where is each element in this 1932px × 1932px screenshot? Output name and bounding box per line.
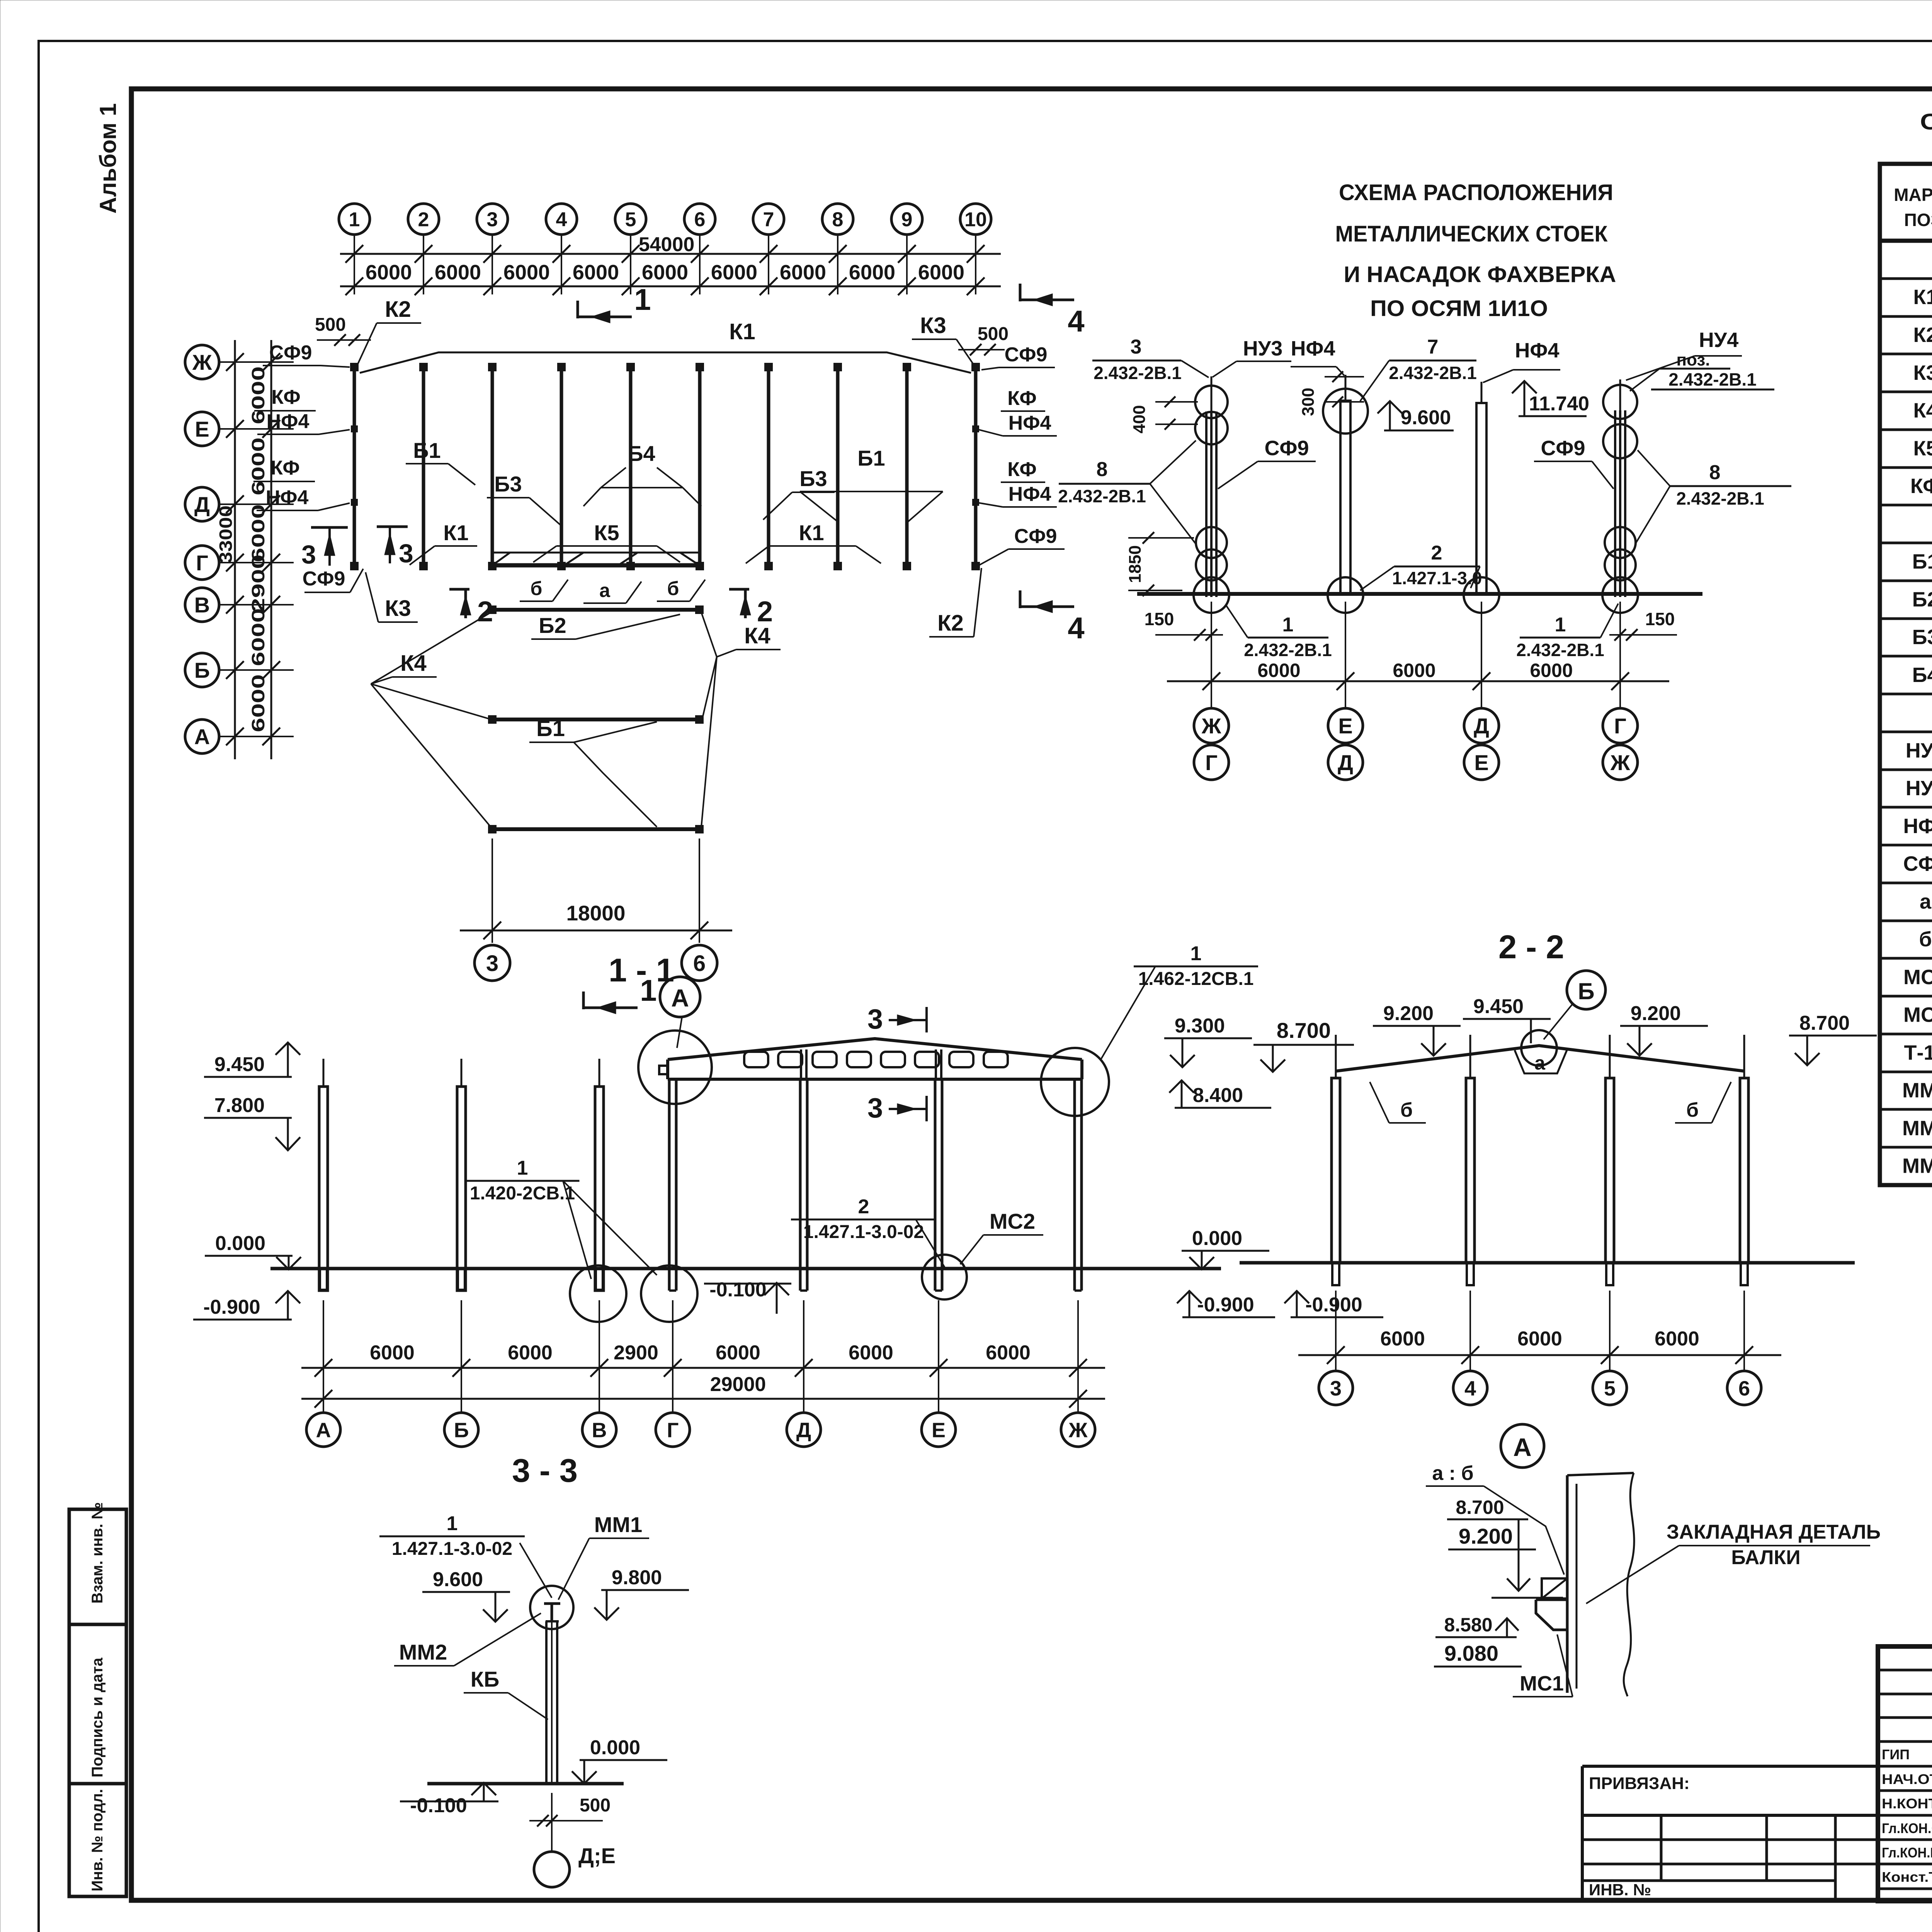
svg-text:2900: 2900 — [248, 554, 268, 612]
svg-text:6000: 6000 — [1380, 1328, 1425, 1350]
svg-text:К2: К2 — [1913, 323, 1932, 347]
section flags 4 top-right and bottom-right — [1020, 299, 1074, 301]
spec row 10: Б2 — [1880, 580, 1932, 582]
svg-text:В: В — [592, 1418, 607, 1442]
svg-text:1.462-12СВ.1: 1.462-12СВ.1 — [1138, 969, 1254, 989]
svg-text:НФ4: НФ4 — [1009, 483, 1051, 505]
svg-text:СФ9: СФ9 — [1903, 852, 1932, 876]
spec row 15: НУ4 — [1880, 769, 1932, 771]
svg-text:К1: К1 — [443, 520, 468, 545]
1-1 MS2 balloon and label — [922, 1255, 967, 1299]
svg-text:8: 8 — [832, 209, 844, 231]
svg-text:поз.: поз. — [1677, 350, 1710, 369]
plan top dimension line 54000 — [340, 253, 1001, 255]
svg-text:6000: 6000 — [248, 366, 268, 424]
2-2 dim line 6000s — [1298, 1354, 1781, 1356]
svg-text:А: А — [1513, 1433, 1532, 1461]
svg-text:9.450: 9.450 — [1473, 995, 1524, 1018]
svg-text:КФ: КФ — [1910, 474, 1932, 498]
svg-text:ПОЗ.: ПОЗ. — [1904, 210, 1932, 230]
plan axis circles 1..10 — [339, 204, 370, 235]
svg-text:Б3: Б3 — [799, 466, 827, 491]
plan axis 5 guide line — [630, 234, 631, 294]
plan axis А guide — [219, 736, 294, 737]
svg-text:КФ: КФ — [1007, 458, 1036, 481]
svg-text:1: 1 — [517, 1157, 528, 1179]
1-1 free columns A B V — [319, 1087, 328, 1291]
svg-text:2.432-2В.1: 2.432-2В.1 — [1244, 640, 1332, 660]
svg-text:МС1: МС1 — [1903, 966, 1932, 989]
svg-text:Взам. инв. №: Взам. инв. № — [89, 1502, 106, 1604]
plan fachwerk squares on axes 1 and 10 — [352, 426, 357, 432]
svg-text:6000: 6000 — [716, 1342, 760, 1364]
svg-text:К1: К1 — [799, 520, 824, 545]
svg-text:400: 400 — [1130, 405, 1149, 433]
2-2 columns 3..6 — [1332, 1078, 1340, 1263]
svg-text:6000: 6000 — [435, 261, 481, 284]
svg-text:КФ: КФ — [1007, 387, 1036, 410]
svg-text:6000: 6000 — [986, 1342, 1031, 1364]
plan axis 1 guide line — [354, 234, 355, 294]
svg-text:4: 4 — [556, 209, 567, 231]
svg-text:9.200: 9.200 — [1631, 1002, 1681, 1025]
plan axis 2 guide line — [423, 234, 424, 294]
svg-text:8.580: 8.580 — [1444, 1614, 1492, 1636]
svg-text:500: 500 — [315, 315, 346, 335]
svg-text:Альбом 1: Альбом 1 — [95, 103, 121, 214]
svg-text:Гл.КОН.ПР.: Гл.КОН.ПР. — [1882, 1845, 1932, 1861]
svg-text:6000: 6000 — [711, 261, 757, 284]
left margin stamp box Vzam inv no — [69, 1509, 126, 1624]
svg-text:6000: 6000 — [366, 261, 412, 284]
svg-text:2900: 2900 — [614, 1342, 658, 1364]
svg-text:4: 4 — [1068, 304, 1084, 338]
svg-text:10: 10 — [964, 209, 987, 231]
detail A wavy break line — [1624, 1473, 1634, 1696]
section flag 1 top on plan — [578, 316, 632, 318]
svg-text:1.427.1-3.0-02: 1.427.1-3.0-02 — [392, 1539, 512, 1559]
svg-text:б: б — [1919, 928, 1932, 951]
svg-text:7: 7 — [1427, 336, 1439, 358]
svg-text:МС1: МС1 — [1520, 1672, 1564, 1695]
beam B2 line axes 3-6 — [492, 608, 699, 612]
fachwerk axis circle pairs — [1211, 694, 1212, 708]
svg-text:6: 6 — [1738, 1377, 1750, 1400]
1-1 section flags 3 upper — [889, 1019, 925, 1021]
3-3 top widget — [544, 1602, 560, 1605]
svg-text:4: 4 — [1068, 611, 1084, 645]
K1 top leader polyline — [360, 352, 971, 373]
spec row 4: К3 — [1880, 353, 1932, 355]
plan left vertical dim line bays — [270, 340, 272, 759]
svg-text:Б4: Б4 — [628, 441, 655, 466]
svg-text:6: 6 — [694, 209, 706, 231]
detail A bracket MS1 — [1536, 1599, 1567, 1601]
spec row 14: НУ3 — [1880, 731, 1932, 733]
svg-text:БАЛКИ: БАЛКИ — [1731, 1546, 1800, 1569]
svg-text:Инв. № подл.: Инв. № подл. — [89, 1789, 106, 1891]
1-1 beam end plate left — [659, 1066, 668, 1074]
spec row 2: К1 — [1880, 277, 1932, 280]
svg-text:1: 1 — [349, 209, 360, 231]
svg-text:Б3: Б3 — [1912, 626, 1932, 649]
spec row 19: б — [1880, 920, 1932, 922]
svg-text:Д: Д — [1474, 714, 1489, 738]
spec row 20: МС1 — [1880, 957, 1932, 960]
1-1 building columns G D E Zh — [668, 1079, 671, 1291]
svg-text:К3: К3 — [1913, 361, 1932, 384]
beam row mid squares — [492, 718, 699, 721]
svg-text:2.432-2В.1: 2.432-2В.1 — [1516, 640, 1604, 660]
spec row 7: КФ — [1880, 466, 1932, 469]
svg-text:1: 1 — [1190, 942, 1202, 965]
2-2 a label at apex — [1515, 1050, 1567, 1073]
spec row 8: Балки — [1880, 504, 1932, 507]
spec table outer box — [1880, 164, 1932, 1185]
svg-text:Г: Г — [196, 551, 208, 575]
svg-text:СПЕЦИФИКАЦИЯ ЭЛЕМЕНТОВ К СХ: СПЕЦИФИКАЦИЯ ЭЛЕМЕНТОВ К СХЕМЕ РАСПОЛОЖЕ… — [1920, 109, 1932, 134]
svg-text:К2: К2 — [385, 297, 411, 322]
svg-text:а: а — [599, 580, 611, 601]
svg-text:Ж: Ж — [1068, 1418, 1088, 1442]
spec row 22: Т-13 — [1880, 1033, 1932, 1036]
svg-text:СФ9: СФ9 — [1014, 525, 1057, 548]
plan axis 9 guide line — [906, 234, 908, 294]
svg-text:6000: 6000 — [248, 437, 268, 495]
plan axis 3 guide line — [492, 234, 493, 294]
1-1 beam holes — [744, 1052, 768, 1067]
svg-text:Б2: Б2 — [539, 613, 566, 638]
svg-text:МС2: МС2 — [1903, 1003, 1932, 1027]
svg-text:Б1: Б1 — [857, 446, 885, 470]
1-1 ground line — [270, 1267, 1221, 1270]
svg-text:В: В — [194, 593, 210, 617]
svg-text:б: б — [667, 578, 679, 599]
svg-text:150: 150 — [1645, 609, 1675, 629]
svg-text:НФ4: НФ4 — [267, 410, 310, 433]
svg-text:К5: К5 — [594, 520, 619, 545]
svg-text:500: 500 — [580, 1795, 611, 1816]
svg-text:СХЕМА РАСПОЛОЖЕНИЯ: СХЕМА РАСПОЛОЖЕНИЯ — [1339, 180, 1613, 205]
svg-text:Е: Е — [195, 417, 209, 441]
svg-text:КФ: КФ — [271, 386, 300, 408]
svg-text:Б: Б — [454, 1418, 469, 1442]
svg-text:6000: 6000 — [642, 261, 688, 284]
spec row 3: К2 — [1880, 315, 1932, 318]
fachwerk ground line — [1137, 592, 1702, 596]
svg-text:9.200: 9.200 — [1383, 1002, 1434, 1025]
spec row 17: СФ9 — [1880, 844, 1932, 847]
svg-text:8: 8 — [1097, 458, 1108, 481]
svg-text:1: 1 — [1555, 614, 1566, 636]
svg-text:ММ2: ММ2 — [399, 1640, 447, 1664]
plan column squares row G — [351, 563, 358, 570]
svg-text:б: б — [1686, 1099, 1699, 1121]
svg-text:6000: 6000 — [849, 261, 895, 284]
svg-text:3: 3 — [867, 1004, 883, 1035]
fachwerk post 4 (SF9) — [1614, 410, 1616, 597]
svg-text:ММ2: ММ2 — [1902, 1117, 1932, 1140]
svg-text:6000: 6000 — [849, 1342, 893, 1364]
svg-text:11.740: 11.740 — [1529, 393, 1589, 415]
svg-text:К1: К1 — [1913, 286, 1932, 309]
svg-text:МЕТАЛЛИЧЕСКИХ СТОЕК: МЕТАЛЛИЧЕСКИХ СТОЕК — [1335, 221, 1608, 247]
plan axis 6 guide line — [699, 234, 701, 294]
svg-text:Д;Е: Д;Е — [578, 1844, 616, 1868]
svg-text:СФ9: СФ9 — [1264, 437, 1309, 460]
1-1 base balloons — [570, 1265, 626, 1322]
spec table header bottom line — [1880, 239, 1932, 243]
svg-text:2 - 2: 2 - 2 — [1498, 929, 1564, 966]
svg-text:а: а — [1534, 1052, 1546, 1074]
spec row 12: Б4 — [1880, 655, 1932, 658]
svg-text:И НАСАДОК ФАХВЕРКА: И НАСАДОК ФАХВЕРКА — [1344, 262, 1616, 287]
svg-text:1.420-2СВ.1: 1.420-2СВ.1 — [470, 1183, 575, 1204]
svg-text:6000: 6000 — [503, 261, 550, 284]
svg-text:б: б — [1400, 1099, 1413, 1121]
svg-text:2.432-2В.1: 2.432-2В.1 — [1389, 363, 1477, 383]
svg-text:Т-13: Т-13 — [1904, 1041, 1932, 1064]
fachwerk post 1 (SF9) — [1205, 412, 1207, 597]
svg-text:5: 5 — [1604, 1377, 1616, 1400]
svg-text:К4: К4 — [744, 623, 770, 648]
svg-text:3 - 3: 3 - 3 — [512, 1452, 578, 1489]
svg-text:6: 6 — [693, 951, 706, 976]
svg-text:0.000: 0.000 — [215, 1232, 265, 1255]
svg-text:НУ4: НУ4 — [1699, 328, 1739, 352]
svg-text:ГИП: ГИП — [1882, 1747, 1910, 1762]
svg-text:Гл.КОН.ОТ: Гл.КОН.ОТ — [1882, 1820, 1932, 1836]
svg-text:9.600: 9.600 — [1401, 406, 1451, 429]
svg-text:6000: 6000 — [248, 504, 268, 562]
svg-text:ЗАКЛАДНАЯ ДЕТАЛЬ: ЗАКЛАДНАЯ ДЕТАЛЬ — [1667, 1521, 1881, 1543]
detail A column body — [1566, 1475, 1569, 1693]
svg-text:Подпись и дата: Подпись и дата — [89, 1657, 106, 1777]
spec row 11: Б3 — [1880, 617, 1932, 620]
plan column squares row Zh — [351, 364, 358, 371]
3-3 axis circle D;E — [534, 1852, 570, 1887]
plan top dimension line with 6000 bays — [340, 286, 1001, 287]
spec row 6: К5 — [1880, 429, 1932, 431]
svg-text:3: 3 — [486, 951, 498, 976]
svg-text:2.432-2В.1: 2.432-2В.1 — [1668, 369, 1757, 389]
plan axis circles left — [185, 345, 219, 379]
svg-text:3: 3 — [301, 540, 316, 569]
fachwerk balloon circles post4 — [1603, 385, 1637, 419]
svg-text:МС2: МС2 — [990, 1209, 1035, 1233]
svg-text:4: 4 — [1464, 1377, 1476, 1400]
svg-text:А: А — [671, 984, 689, 1012]
svg-text:2: 2 — [1431, 542, 1442, 564]
svg-text:НУ3: НУ3 — [1906, 739, 1932, 762]
svg-text:Б1: Б1 — [536, 716, 565, 741]
svg-text:6000: 6000 — [508, 1342, 553, 1364]
svg-text:6000: 6000 — [248, 608, 268, 666]
svg-text:Д: Д — [194, 492, 210, 517]
1-1 section flags 3 lower — [889, 1108, 925, 1110]
svg-text:К5: К5 — [1913, 437, 1932, 460]
svg-text:33000: 33000 — [216, 505, 236, 563]
svg-text:КФ: КФ — [270, 457, 299, 479]
plan building column lines axes 1-10 — [353, 367, 356, 566]
plan axis Ж guide — [219, 361, 294, 363]
svg-text:Е: Е — [932, 1418, 946, 1442]
plan axis 8 guide line — [837, 234, 838, 294]
svg-text:3: 3 — [1330, 1377, 1342, 1400]
svg-text:ПО ОСЯМ 1И1О: ПО ОСЯМ 1И1О — [1370, 296, 1548, 321]
spec row 23: ММ1 — [1880, 1071, 1932, 1073]
svg-text:0.000: 0.000 — [590, 1736, 640, 1759]
svg-text:-0.900: -0.900 — [203, 1296, 260, 1318]
svg-text:К1: К1 — [729, 319, 755, 344]
svg-text:Б3: Б3 — [494, 472, 522, 496]
plan axis Е guide — [219, 428, 294, 430]
svg-text:К4: К4 — [1913, 399, 1932, 422]
svg-text:НФ4: НФ4 — [1291, 337, 1335, 360]
svg-text:0.000: 0.000 — [1192, 1227, 1242, 1250]
svg-text:Ж: Ж — [1610, 750, 1630, 775]
plan axis 4 guide line — [561, 234, 562, 294]
svg-text:НФ4: НФ4 — [1903, 815, 1932, 838]
spec row 24: ММ2 — [1880, 1108, 1932, 1111]
svg-text:Ж: Ж — [192, 350, 212, 374]
svg-text:б: б — [531, 578, 543, 599]
svg-text:НАЧ.ОТД: НАЧ.ОТД — [1882, 1771, 1932, 1787]
svg-text:2.432-2В.1: 2.432-2В.1 — [1058, 486, 1146, 506]
1-1 balloon around beam left end — [638, 1031, 712, 1104]
fachwerk post 2 — [1340, 401, 1350, 594]
plan axis Г guide — [219, 562, 294, 563]
svg-text:9: 9 — [901, 209, 913, 231]
svg-text:7: 7 — [763, 209, 774, 231]
svg-text:18000: 18000 — [566, 901, 626, 925]
2-2 axis circles 3..6 — [1319, 1371, 1353, 1405]
svg-text:Н.КОНТР.: Н.КОНТР. — [1882, 1796, 1932, 1811]
svg-text:9.080: 9.080 — [1444, 1641, 1498, 1665]
svg-text:НФ4: НФ4 — [1515, 339, 1559, 362]
svg-text:3: 3 — [1131, 336, 1142, 358]
spec row 18: а — [1880, 882, 1932, 884]
svg-text:2.432-2В.1: 2.432-2В.1 — [1094, 363, 1182, 383]
left margin stamp box Inv no podl — [69, 1784, 126, 1896]
svg-text:5: 5 — [625, 209, 636, 231]
svg-text:3: 3 — [399, 539, 413, 568]
svg-text:а: а — [1920, 890, 1932, 913]
1-1 roof beam — [668, 1039, 1082, 1060]
plan axis Д guide — [219, 503, 294, 505]
spec row 5: К4 — [1880, 391, 1932, 393]
plan axis В guide — [219, 604, 294, 605]
fachwerk post 3 — [1476, 403, 1486, 594]
svg-text:-0.900: -0.900 — [1197, 1294, 1254, 1316]
svg-text:8.700: 8.700 — [1799, 1012, 1850, 1034]
svg-text:3: 3 — [487, 209, 498, 231]
svg-text:Г: Г — [667, 1418, 679, 1442]
svg-text:Ж: Ж — [1201, 714, 1221, 738]
svg-text:Е: Е — [1338, 714, 1352, 738]
section flags 3 3 left (vertical, arrow up) — [311, 526, 348, 529]
svg-text:ИНВ. №: ИНВ. № — [1589, 1881, 1651, 1899]
svg-text:А: А — [316, 1418, 331, 1442]
svg-text:-0.900: -0.900 — [1305, 1294, 1362, 1316]
svg-text:1.427.1-3.0-02: 1.427.1-3.0-02 — [803, 1222, 924, 1242]
svg-text:3: 3 — [867, 1093, 883, 1124]
svg-text:Д: Д — [796, 1418, 811, 1442]
svg-text:ПРИВЯЗАН:: ПРИВЯЗАН: — [1589, 1774, 1690, 1793]
svg-text:9.800: 9.800 — [612, 1566, 662, 1589]
plan axis Б guide — [219, 669, 294, 671]
svg-text:1850: 1850 — [1126, 545, 1145, 583]
svg-text:Б2: Б2 — [1912, 588, 1932, 611]
svg-text:8.400: 8.400 — [1193, 1084, 1243, 1107]
svg-text:К2: К2 — [937, 611, 964, 636]
spec row 9: Б1 — [1880, 542, 1932, 544]
1-1 dim line 29000 — [301, 1398, 1105, 1400]
1-1 detail balloon A — [660, 977, 700, 1017]
detail A balloon — [1501, 1424, 1544, 1468]
svg-text:Г: Г — [1614, 714, 1626, 738]
svg-text:ММ3: ММ3 — [1902, 1155, 1932, 1178]
svg-text:2.432-2В.1: 2.432-2В.1 — [1676, 488, 1764, 509]
svg-text:Д: Д — [1338, 750, 1353, 775]
svg-text:6000: 6000 — [1530, 660, 1573, 681]
svg-text:6000: 6000 — [248, 674, 268, 732]
svg-text:СФ9: СФ9 — [1005, 344, 1048, 366]
svg-text:А: А — [194, 724, 210, 749]
dim 18000 — [492, 838, 493, 943]
svg-text:6000: 6000 — [370, 1342, 415, 1364]
svg-text:150: 150 — [1145, 609, 1174, 629]
svg-text:300: 300 — [1299, 388, 1318, 416]
svg-text:6000: 6000 — [1257, 660, 1300, 681]
svg-text:СФ9: СФ9 — [1541, 437, 1585, 460]
privyazan area — [1582, 1765, 1878, 1768]
spec row 13: Стальные изделия — [1880, 693, 1932, 696]
plan left vertical dim line 33000 — [234, 340, 236, 759]
svg-text:Б1: Б1 — [1912, 550, 1932, 573]
svg-text:НУ3: НУ3 — [1243, 337, 1283, 360]
svg-text:1.427.1-3.0: 1.427.1-3.0 — [1392, 568, 1482, 588]
svg-text:9.200: 9.200 — [1459, 1524, 1513, 1548]
1-1 axis circles A..Zh — [323, 1376, 324, 1413]
svg-text:54000: 54000 — [639, 233, 695, 256]
svg-text:1: 1 — [1282, 614, 1294, 636]
svg-text:СФ9: СФ9 — [303, 568, 345, 590]
svg-text:6000: 6000 — [918, 261, 964, 284]
svg-text:Г: Г — [1205, 750, 1218, 775]
2-2 ground line — [1240, 1261, 1855, 1265]
beam row bottom squares — [492, 827, 699, 831]
1-1 pins through beam at D and E — [800, 1049, 802, 1079]
3-3 ground line — [427, 1782, 624, 1786]
svg-text:9.300: 9.300 — [1175, 1015, 1225, 1037]
svg-text:1: 1 — [447, 1512, 458, 1535]
svg-text:6000: 6000 — [780, 261, 826, 284]
svg-text:500: 500 — [978, 324, 1009, 344]
svg-text:6000: 6000 — [573, 261, 619, 284]
svg-text:8: 8 — [1709, 461, 1721, 484]
svg-text:8.700: 8.700 — [1277, 1018, 1331, 1043]
svg-text:К3: К3 — [920, 313, 946, 338]
svg-text:Е: Е — [1474, 750, 1488, 775]
svg-text:НУ4: НУ4 — [1906, 777, 1932, 800]
svg-text:6000: 6000 — [1517, 1328, 1562, 1350]
section flags 2 2 on plan — [464, 589, 467, 618]
svg-text:8.700: 8.700 — [1456, 1497, 1504, 1518]
svg-text:9.450: 9.450 — [214, 1053, 265, 1076]
plan axis 10 guide line — [975, 234, 976, 294]
svg-text:9.600: 9.600 — [433, 1568, 483, 1591]
